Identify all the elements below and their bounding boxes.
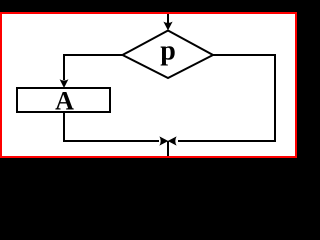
wire: diamond right vertex to right rail [213,54,276,56]
arrowhead right into junction [159,136,168,145]
wire: exit down through bottom border [167,141,169,156]
arrowhead left into junction [168,136,177,145]
white canvas [2,14,295,156]
wire: box A down to bottom rail [63,113,65,142]
wire: left corner down toward box A [63,54,65,80]
wire: right rail down [274,54,276,142]
arrowhead into diamond top [163,22,172,31]
svg-text:p: p [160,36,176,67]
wire: diamond left vertex to left corner [63,54,123,56]
wire: entry from top border to diamond [167,14,169,25]
decision diamond [123,31,214,79]
arrowhead into box A [60,79,69,88]
process box A [17,88,110,112]
wire: bottom rail from right to junction [178,140,276,142]
red frame [0,12,297,158]
svg-text:A: A [55,87,74,116]
wire: bottom rail from A to junction [63,140,159,142]
black background [0,0,299,178]
